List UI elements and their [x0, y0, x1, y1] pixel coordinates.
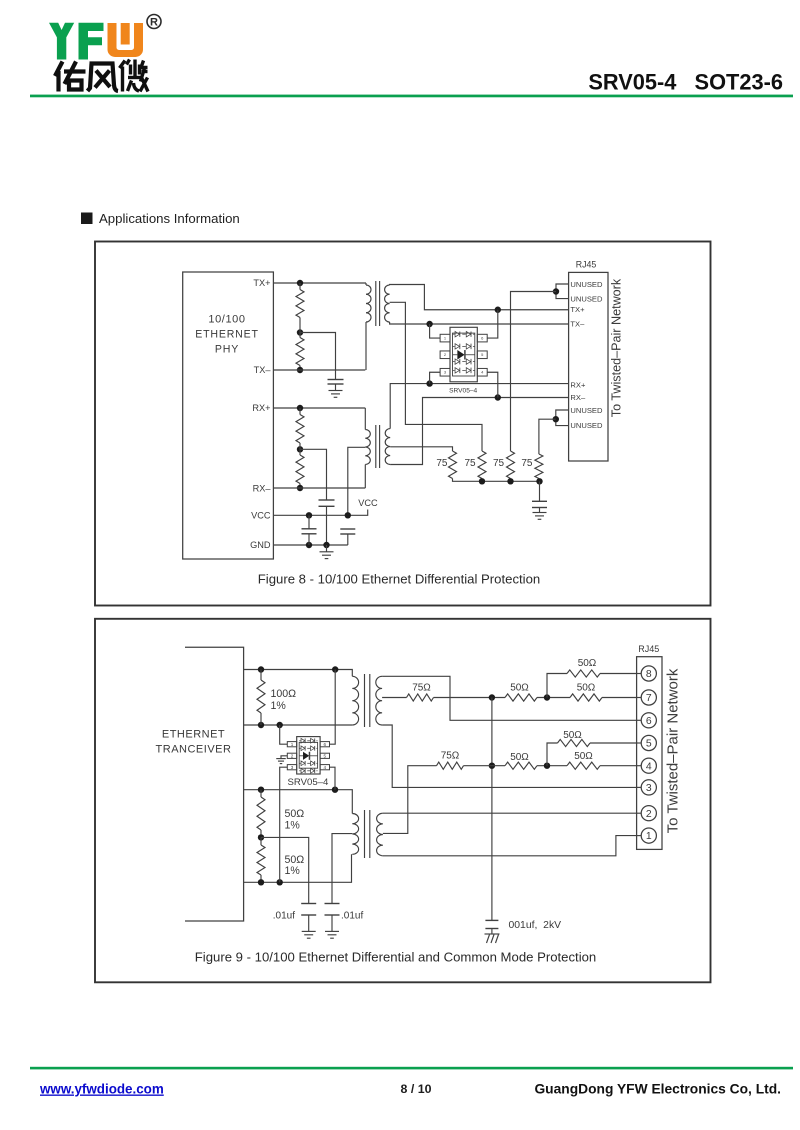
wire GND rail to ground symbol — [326, 545, 328, 552]
svg-text:6: 6 — [324, 742, 327, 747]
pin 5 of J2 circled — [637, 735, 657, 750]
junction W3-W4 divider center — [258, 834, 264, 840]
wire TX+ from PHY to transformer T1 — [273, 282, 366, 284]
capacitor C5 termination — [532, 500, 547, 502]
svg-text:50Ω: 50Ω — [577, 683, 596, 694]
junction pin5 branch on pin4 line — [544, 763, 550, 769]
wire U1 pin 3 to RX+ line — [430, 372, 441, 383]
wire R13 to R14 — [464, 765, 506, 767]
wire pin8 branch — [547, 674, 567, 698]
transformer T3 primary coil — [352, 676, 358, 725]
svg-text:TRANCEIVER: TRANCEIVER — [156, 744, 232, 756]
junction R5 to bus — [479, 478, 485, 484]
diode pair inside U1 — [453, 359, 475, 364]
svg-text:SRV05-4 SOT23-6: SRV05-4 SOT23-6 — [588, 70, 783, 95]
junction pin8 branch on pin7 line — [544, 694, 550, 700]
transformer T2 secondary coil — [385, 429, 390, 465]
svg-text:TX+: TX+ — [570, 305, 585, 314]
svg-text:10/100: 10/100 — [208, 314, 245, 326]
svg-text:.01uf: .01uf — [273, 911, 295, 922]
svg-text:1%: 1% — [285, 820, 301, 832]
pin 2 of U1 — [440, 351, 450, 359]
wire unused top pair to resistor R6 — [511, 292, 557, 452]
wire R16 to RJ45 pin 5 — [590, 742, 637, 744]
svg-text:Figure 8 - 10/100 Ethernet Dif: Figure 8 - 10/100 Ethernet Differential … — [258, 572, 540, 587]
transformer T4 core — [364, 810, 366, 858]
wire W1 tranceiver to T3 primary top — [244, 670, 353, 677]
svg-text:50Ω: 50Ω — [578, 658, 597, 669]
resistor R12 50 ohm — [567, 670, 600, 677]
junction RX+ line to U1 pin 3 — [426, 380, 432, 386]
junction common mode cap tap lower — [489, 763, 495, 769]
resistor R11 50 ohm — [570, 694, 602, 701]
pin 3 of J2 circled — [637, 780, 657, 795]
diode pair inside U1 — [453, 344, 475, 349]
diode pair inside U3 — [299, 768, 317, 773]
svg-text:RX–: RX– — [570, 393, 586, 402]
wire C7 to ground — [331, 915, 333, 931]
resistor R1 upper termination on TX pair — [296, 290, 304, 318]
resistor R15 50 ohm — [567, 762, 600, 769]
pin 3 of U1 — [440, 368, 450, 376]
capacitor C7 .01uf — [325, 903, 340, 905]
resistor R10 50 ohm — [505, 694, 537, 701]
wire C1 to ground — [335, 384, 337, 391]
svg-text:GuangDong YFW Electronics Co,: GuangDong YFW Electronics Co, Ltd. — [534, 1082, 781, 1097]
pin 4 of U3 — [320, 765, 329, 770]
junction W4 at R18 bottom — [258, 879, 264, 885]
resistor R4a 75 ohm — [449, 451, 457, 479]
wire W4 tranceiver to T4 primary bottom — [244, 854, 352, 882]
wire R14 to R15 — [537, 765, 567, 767]
junction RX center tap — [297, 446, 303, 452]
pin 1 of J2 circled — [637, 828, 657, 843]
svg-text:VCC: VCC — [251, 511, 271, 521]
wire GND rail from PHY — [273, 544, 347, 546]
header green rule — [30, 95, 793, 98]
wire T2 primary center tap to VCC rail — [348, 447, 366, 515]
svg-text:75: 75 — [521, 458, 533, 469]
svg-text:1%: 1% — [271, 700, 287, 712]
svg-text:75: 75 — [436, 458, 448, 469]
wire T1 secondary bottom to RJ45 TX- — [390, 322, 569, 324]
pin 2 of J2 circled — [637, 806, 657, 821]
resistor R3 upper termination on RX pair — [296, 415, 304, 444]
wire T3 secondary top to RJ45 pin 6 — [382, 676, 637, 720]
resistor R6 75 ohm — [507, 451, 515, 479]
junction W2 at R8 bottom — [258, 722, 264, 728]
transformer T1 core — [375, 281, 377, 326]
pin 4 of J2 circled — [637, 758, 657, 773]
svg-text:75: 75 — [464, 458, 476, 469]
svg-text:50Ω: 50Ω — [563, 730, 582, 741]
wire C6 to ground — [308, 915, 310, 931]
wire TX center tap to capacitor C1 — [300, 333, 336, 380]
ground symbol at U3 pin 2 — [276, 759, 286, 764]
capacitor C2 RX termination — [319, 499, 335, 501]
svg-text:4: 4 — [646, 761, 652, 772]
wire T1 secondary top to RJ45 TX+ — [390, 285, 569, 310]
svg-text:R: R — [150, 17, 158, 29]
svg-text:ETHERNET: ETHERNET — [195, 329, 259, 341]
svg-text:100Ω: 100Ω — [271, 688, 297, 700]
transformer T1 primary coil — [366, 285, 371, 322]
junction W1 to U3 pin 6 — [332, 666, 338, 672]
logo registered trademark symbol — [147, 15, 161, 29]
junction on TX- at R2 bottom — [297, 367, 303, 373]
zener diode inside U1 — [453, 350, 475, 359]
resistor R5 75 ohm — [478, 451, 486, 479]
svg-text:75: 75 — [493, 458, 505, 469]
pin 2 of U3 — [287, 753, 296, 758]
svg-text:UNUSED: UNUSED — [570, 294, 603, 303]
svg-text:5: 5 — [324, 753, 327, 758]
svg-text:75Ω: 75Ω — [441, 750, 460, 761]
wire T2 secondary center tap to resistor R4a — [390, 447, 452, 451]
wire U1 pin 4 to RX- line — [487, 372, 498, 397]
wire unused pair 1-2 of J1 — [556, 284, 569, 299]
wire U3 pin 2 to ground — [281, 756, 287, 759]
svg-text:UNUSED: UNUSED — [570, 406, 603, 415]
capacitor C8 common mode 001uf 2kV — [485, 919, 498, 921]
svg-text:ETHERNET: ETHERNET — [162, 729, 225, 741]
resistor R13 75 ohm — [437, 762, 464, 769]
resistor R3b lower termination on RX pair — [296, 455, 304, 484]
svg-text:TX+: TX+ — [253, 278, 270, 288]
pin 6 of J2 circled — [637, 713, 657, 728]
wire T4 secondary bottom to RJ45 pin 1 — [383, 836, 637, 856]
junction W2 to U3 pin 1 — [277, 722, 283, 728]
Ethernet tranceiver block — [185, 647, 244, 921]
resistor R16 50 ohm — [558, 739, 591, 746]
junction unused pair top — [553, 288, 559, 294]
junction R6 to bus — [507, 478, 513, 484]
wire R10 to R11 — [537, 697, 570, 699]
diode pair inside U3 — [299, 761, 317, 766]
svg-text:To Twisted–Pair Network: To Twisted–Pair Network — [610, 278, 624, 417]
junction on RX+ at R3 top — [297, 405, 303, 411]
svg-text:2: 2 — [646, 809, 652, 820]
logo YFW W glyph — [108, 23, 144, 57]
diode pair inside U1 — [453, 368, 475, 373]
zener diode inside U3 — [299, 752, 317, 760]
svg-text:www.yfwdiode.com: www.yfwdiode.com — [39, 1082, 164, 1097]
wire common mode capacitor riser — [491, 698, 493, 921]
wire T4 secondary top to RJ45 pin 2 — [383, 812, 637, 814]
ground symbol below C1 — [329, 391, 343, 398]
capacitor C6 .01uf — [301, 903, 316, 905]
wire U3 pin 1 to W2 — [280, 725, 288, 744]
resistor R8 100 ohm 1% — [257, 680, 265, 713]
wire VCC rail from PHY — [273, 510, 367, 516]
junction on RX- at chain bottom — [297, 485, 303, 491]
svg-text:8 / 10: 8 / 10 — [400, 1082, 431, 1096]
svg-text:5: 5 — [646, 739, 652, 750]
svg-text:50Ω: 50Ω — [510, 683, 529, 694]
wire U1 pin 6 to TX+ line — [487, 310, 498, 338]
pin 4 of U1 — [477, 368, 487, 376]
svg-text:1%: 1% — [285, 865, 301, 877]
svg-text:RX+: RX+ — [252, 403, 270, 413]
logo Chinese text Wei — [120, 60, 149, 92]
wire T4 secondary center tap riser — [383, 766, 437, 834]
wire TX- from PHY to transformer T1 — [273, 369, 365, 371]
svg-text:RJ45: RJ45 — [638, 644, 659, 654]
wire unused pair 7-8 of J1 — [556, 410, 569, 426]
wire U3 pin 4 to W3 — [330, 767, 336, 790]
svg-text:TX–: TX– — [570, 319, 585, 328]
capacitor C4 VCC bypass — [340, 528, 355, 530]
svg-text:50Ω: 50Ω — [574, 751, 593, 762]
svg-text:.01uf: .01uf — [341, 911, 363, 922]
section heading Applications Information — [81, 211, 240, 226]
svg-text:4: 4 — [324, 765, 327, 770]
pin 1 of U3 — [287, 742, 296, 747]
wire unused bottom pair to resistor R7 — [539, 419, 556, 454]
svg-text:2: 2 — [291, 753, 294, 758]
wire T2 secondary bottom to RJ45 RX- — [390, 398, 568, 465]
svg-text:PHY: PHY — [215, 344, 239, 356]
TVS array U3 SRV05-4 body — [297, 737, 320, 774]
svg-text:8: 8 — [646, 669, 652, 680]
junction R7 to bus — [536, 478, 542, 484]
resistor R2 lower termination on TX pair — [296, 338, 304, 366]
diode pair inside U1 — [453, 331, 475, 336]
ground symbol below C7 — [325, 931, 339, 938]
wire T4 primary center tap to capacitor C7 — [332, 834, 352, 904]
pin 3 of U3 — [287, 765, 296, 770]
pin 6 of U1 — [477, 334, 487, 342]
logo YFW letter Y — [49, 23, 74, 60]
diode pair inside U3 — [299, 738, 317, 743]
logo Chinese text Feng — [88, 64, 119, 92]
pin 5 of U1 — [477, 351, 487, 359]
transformer T3 core — [364, 674, 366, 727]
ground symbol of GND rail — [320, 552, 334, 559]
pin 5 of U3 — [320, 753, 329, 758]
svg-text:TX–: TX– — [254, 365, 272, 375]
wire RX- from PHY to transformer T2 — [273, 487, 365, 489]
junction unused pair bottom — [553, 416, 559, 422]
wire pin5 branch — [547, 743, 558, 766]
svg-text:001uf, 2kV: 001uf, 2kV — [509, 920, 562, 931]
svg-text:6: 6 — [646, 716, 652, 727]
footer green rule — [30, 1067, 793, 1070]
wire T3 center tap toward 75 ohm — [382, 697, 406, 699]
svg-text:UNUSED: UNUSED — [570, 280, 603, 289]
junction TX center tap — [297, 329, 303, 335]
resistor R18 50 ohm 1% — [257, 845, 265, 875]
svg-text:Applications Information: Applications Information — [99, 211, 240, 226]
connector J2 RJ45 outline — [637, 657, 662, 850]
capacitor C3 VCC bypass — [308, 515, 310, 529]
junction RX- line to U1 pin 4 — [495, 394, 501, 400]
pin 7 of J2 circled — [637, 690, 657, 705]
svg-text:1: 1 — [646, 831, 652, 842]
junction TX+ line to U1 pin 6 — [495, 307, 501, 313]
transformer T1 secondary coil — [385, 285, 390, 322]
svg-text:7: 7 — [646, 693, 652, 704]
svg-text:Figure 9 - 10/100 Ethernet Dif: Figure 9 - 10/100 Ethernet Differential … — [195, 950, 597, 965]
wire W2 tranceiver to T3 primary bottom — [244, 724, 353, 726]
svg-text:3: 3 — [291, 765, 294, 770]
ground symbol below C6 — [302, 931, 316, 938]
transformer T4 secondary coil — [377, 813, 383, 856]
svg-text:50Ω: 50Ω — [510, 752, 529, 763]
ground symbol below C5 — [533, 513, 547, 520]
transformer T4 primary coil — [352, 814, 358, 855]
transformer T3 secondary coil — [376, 676, 382, 725]
wire W3 tranceiver to T4 primary top — [244, 790, 353, 814]
junction GND rail ground stem — [323, 542, 329, 548]
resistor R9 75 ohm — [407, 694, 434, 701]
wire T3 secondary bottom to RJ45 pin 3 — [382, 725, 637, 787]
junction common mode cap tap upper — [489, 694, 495, 700]
wire RX+ from PHY to transformer T2 — [273, 407, 365, 409]
resistor R7 75 ohm — [535, 454, 543, 479]
capacitor C1 TX termination — [328, 379, 344, 381]
svg-text:To Twisted–Pair Network: To Twisted–Pair Network — [665, 668, 682, 833]
junction VCC rail capacitor C4 — [345, 512, 351, 518]
wire R15 to RJ45 pin 4 — [600, 765, 637, 767]
wire divider center to capacitor C6 — [261, 837, 309, 903]
PHY block U2 10/100 Ethernet PHY — [183, 272, 274, 559]
svg-text:3: 3 — [646, 783, 652, 794]
junction on TX+ at R1 top — [297, 280, 303, 286]
svg-text:RX–: RX– — [253, 484, 272, 494]
TVS array U1 SRV05-4 body — [450, 327, 477, 382]
logo Chinese text You — [55, 62, 86, 92]
wire termination bus below 75 ohm resistors — [453, 479, 540, 482]
svg-text:50Ω: 50Ω — [285, 808, 305, 820]
svg-text:SRV05–4: SRV05–4 — [449, 388, 477, 395]
junction W3 to U3 pin 4 — [332, 787, 338, 793]
wire U3 pin 6 to W1 — [330, 670, 336, 745]
transformer T2 core — [375, 425, 377, 468]
diode pair inside U3 — [299, 746, 317, 751]
junction VCC rail capacitor C3 — [306, 512, 312, 518]
wire C2 to GND rail — [326, 506, 328, 545]
wire C5 to ground — [539, 508, 541, 513]
wire R9 to R10 — [434, 697, 506, 699]
pin 1 of U1 — [440, 334, 450, 342]
connector J1 RJ45 outline — [569, 272, 608, 461]
svg-text:VCC: VCC — [358, 498, 378, 508]
svg-text:SRV05–4: SRV05–4 — [287, 777, 329, 788]
figure 8 frame — [95, 242, 711, 606]
wire T2 secondary top to RJ45 RX+ — [390, 384, 568, 429]
junction W1 at R8 top — [258, 666, 264, 672]
wire R11 to RJ45 pin 7 — [602, 697, 637, 699]
pin 8 of J2 circled — [637, 666, 657, 681]
wire bus to capacitor C5 — [539, 481, 541, 501]
transformer T2 primary coil — [365, 430, 370, 465]
chassis ground below C8 — [485, 929, 500, 944]
resistor R17 50 ohm 1% — [257, 797, 265, 830]
pin 6 of U3 — [320, 742, 329, 747]
svg-text:RX+: RX+ — [570, 381, 586, 390]
svg-text:GND: GND — [250, 540, 271, 550]
logo YFW letter F — [79, 23, 104, 60]
wire U3 pin 3 to W4 — [280, 767, 288, 882]
wire RX center tap to capacitor C2 — [300, 449, 327, 500]
figure 9 frame — [95, 619, 711, 983]
junction GND rail capacitor C3 — [306, 542, 312, 548]
resistor R14 50 ohm — [505, 762, 537, 769]
svg-text:75Ω: 75Ω — [412, 683, 431, 694]
svg-text:UNUSED: UNUSED — [570, 421, 603, 430]
wire R12 to RJ45 pin 8 — [600, 673, 637, 675]
svg-text:RJ45: RJ45 — [576, 260, 597, 270]
junction W3 at R17 top — [258, 787, 264, 793]
junction TX- line to U1 pin 1 — [426, 321, 432, 327]
svg-text:1: 1 — [291, 742, 294, 747]
junction W4 to U3 pin 3 — [277, 879, 283, 885]
wire U1 pin 1 to TX- line — [430, 324, 441, 338]
wire T1 secondary center tap to resistor R4 — [390, 302, 482, 451]
